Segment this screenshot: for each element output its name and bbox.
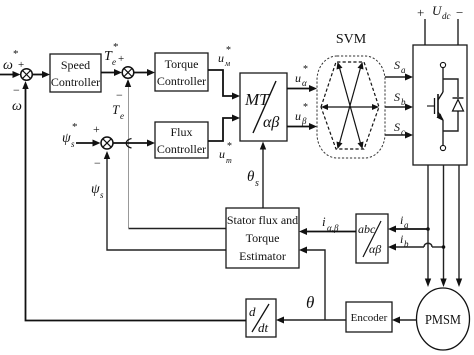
wire SVM to inverter Sa — [385, 74, 413, 81]
svg-text:i: i — [400, 232, 403, 246]
svg-text:i: i — [322, 214, 326, 229]
wire psi_s arrow into J3 — [104, 151, 110, 159]
block PMSM — [417, 288, 470, 350]
svg-text:u: u — [295, 109, 301, 123]
svg-text:s: s — [100, 190, 104, 200]
svg-text:e: e — [120, 111, 124, 121]
svg-text:Controller: Controller — [51, 75, 100, 89]
svg-text:b: b — [404, 239, 409, 249]
svg-text:s: s — [71, 139, 75, 149]
node Sc label — [394, 120, 405, 137]
svg-text:−: − — [94, 156, 101, 170]
svg-text:u: u — [295, 71, 301, 85]
svg-text:u: u — [219, 147, 225, 161]
wire psi_s* input — [76, 140, 101, 147]
block Encoder — [346, 302, 392, 332]
block SVM container — [317, 56, 385, 158]
svg-text:αβ: αβ — [369, 242, 381, 256]
block Torque Controller — [155, 53, 208, 91]
wire abc to estimator — [299, 228, 356, 235]
svg-text:MT: MT — [244, 90, 270, 109]
node Te feedback label — [112, 102, 124, 121]
block Stator flux and Torque Estimator — [226, 208, 299, 268]
IGBT top terminal — [440, 62, 445, 92]
wire Te feedback vertical — [128, 81, 130, 228]
wire inverter output b — [440, 165, 446, 287]
svg-text:b: b — [401, 97, 406, 107]
summing junction J3 — [101, 137, 113, 149]
block Flux Controller — [155, 122, 208, 158]
svg-text:Encoder: Encoder — [351, 312, 388, 324]
svg-text:α: α — [302, 78, 307, 88]
svg-text:β: β — [301, 116, 307, 126]
svg-text:dc: dc — [442, 11, 451, 21]
wire J3 to flux controller with hop — [114, 139, 156, 149]
svg-text:θ: θ — [247, 169, 255, 185]
svg-text:*: * — [226, 45, 231, 56]
wire PMSM to encoder — [392, 317, 417, 324]
svg-text:Speed: Speed — [61, 58, 90, 72]
svg-text:Torque: Torque — [165, 57, 199, 71]
svg-text:Stator flux and: Stator flux and — [227, 213, 298, 227]
node u*_m label — [218, 45, 231, 68]
wire theta branch to estimator — [299, 247, 325, 321]
svg-text:u: u — [218, 51, 224, 65]
wire omega* input — [0, 71, 21, 78]
svg-text:S: S — [394, 58, 400, 72]
SVM arrows diagonal TR-BL — [337, 62, 364, 149]
wire Udc plus lead — [424, 19, 426, 45]
svg-text:Torque: Torque — [246, 231, 280, 245]
svg-text:S: S — [394, 90, 400, 104]
svg-text:Controller: Controller — [157, 74, 206, 88]
wire flux controller to MT — [208, 115, 240, 142]
svg-text:dt: dt — [258, 320, 269, 335]
svg-text:θ: θ — [306, 293, 314, 312]
wire psi_s feedback vertical — [107, 155, 226, 250]
svg-text:i: i — [400, 213, 403, 227]
node Sb label — [394, 90, 406, 107]
svg-text:м: м — [224, 59, 230, 68]
svg-text:ψ: ψ — [62, 131, 71, 146]
wire ia tap — [388, 226, 430, 233]
svg-text:T: T — [112, 102, 120, 117]
wire ib tap with hop — [388, 243, 445, 250]
diode branch — [443, 79, 458, 131]
SVM arrows diagonal TL-BR — [337, 62, 364, 149]
svg-text:*: * — [303, 102, 308, 113]
node psi_s* label — [62, 121, 78, 149]
svg-text:ψ: ψ — [91, 182, 100, 197]
node u*_beta label — [295, 102, 308, 126]
node Udc label — [417, 3, 463, 21]
svg-text:c: c — [401, 127, 405, 137]
svg-text:+: + — [118, 53, 124, 65]
node omega* label — [3, 48, 24, 73]
IGBT body — [427, 92, 444, 145]
summing junction J2 — [122, 67, 134, 79]
svg-text:ω: ω — [3, 58, 13, 73]
svg-text:a: a — [401, 65, 406, 75]
svg-text:+: + — [417, 5, 424, 20]
svg-text:abc: abc — [358, 222, 376, 236]
svg-text:ω: ω — [12, 99, 22, 114]
svg-text:+: + — [93, 122, 100, 136]
wire MT to SVM u_alpha — [287, 85, 317, 92]
wire torque controller to MT — [208, 70, 240, 100]
wire Udc minus lead — [457, 19, 459, 45]
wire inverter output a — [425, 165, 431, 287]
svg-text:αβ: αβ — [263, 114, 279, 131]
svg-text:PMSM: PMSM — [425, 313, 461, 328]
svg-text:*: * — [227, 141, 232, 152]
SVM hexagon dashed — [321, 62, 379, 149]
wire J1 to speed controller — [33, 71, 51, 78]
SVM arrows horizontal — [321, 104, 379, 110]
wire SVM to inverter Sb — [385, 104, 413, 111]
wire J2 to torque controller — [134, 69, 155, 76]
wire speed controller to J2 — [101, 69, 122, 76]
node psi_s feedback label — [91, 182, 104, 200]
node Sa label — [394, 58, 406, 75]
svg-text:S: S — [394, 120, 400, 134]
svg-text:*: * — [113, 41, 119, 53]
node ia label — [400, 213, 409, 230]
wire inverter output c — [456, 165, 462, 287]
block Speed Controller — [50, 54, 101, 92]
svg-text:SVM: SVM — [336, 32, 367, 47]
wire Te feedback arrow into J2 — [125, 79, 131, 87]
node Te* label — [104, 41, 124, 67]
svg-text:Estimator: Estimator — [239, 249, 286, 263]
svg-text:d: d — [249, 304, 256, 319]
svg-text:т: т — [226, 156, 232, 165]
block inverter — [413, 45, 467, 165]
svg-text:−: − — [116, 88, 123, 102]
svg-text:Controller: Controller — [157, 142, 206, 156]
wire encoder to d/dt — [276, 317, 346, 324]
svg-text:Flux: Flux — [170, 125, 192, 139]
svg-text:*: * — [303, 64, 308, 75]
svg-text:a: a — [404, 220, 409, 230]
svg-text:α,β: α,β — [327, 223, 339, 233]
wire Te feedback horizontal — [129, 228, 227, 230]
wire SVM to inverter Sc — [385, 132, 413, 139]
block MT/alphabeta — [240, 73, 287, 141]
svg-text:*: * — [72, 121, 78, 133]
node u*_alpha label — [295, 64, 308, 88]
IGBT bottom terminal — [440, 145, 445, 150]
block d/dt — [246, 299, 276, 337]
svg-text:−: − — [13, 83, 20, 97]
wire MT to SVM u_beta — [287, 123, 317, 130]
svg-text:e: e — [112, 57, 116, 67]
svg-text:−: − — [456, 5, 463, 20]
wire d/dt to J1 feedback loop — [22, 81, 246, 321]
node i_alphabeta label — [322, 214, 339, 233]
diode D1 — [453, 98, 464, 111]
svg-text:s: s — [255, 178, 259, 189]
node u*_t label — [219, 141, 232, 165]
wire theta_s estimator to MT — [260, 142, 266, 209]
block abc/alphabeta — [356, 214, 388, 263]
node ib label — [400, 232, 409, 249]
node theta_s label — [247, 169, 259, 189]
summing junction J1 — [21, 69, 33, 81]
